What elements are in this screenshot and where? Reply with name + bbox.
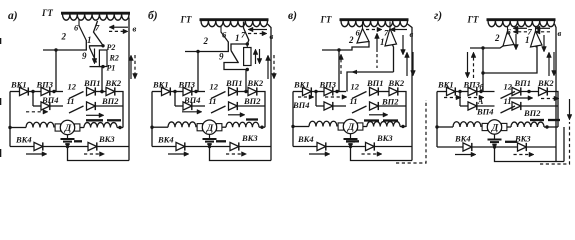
return loop xyxy=(210,147,272,161)
wire and node after ВК1 xyxy=(455,90,468,93)
svg-text:ВП3: ВП3 xyxy=(178,80,196,90)
diode ВК2 xyxy=(105,78,122,96)
bottom bus xyxy=(293,146,317,148)
heavy current mark 1 xyxy=(246,118,258,120)
bottom bus xyxy=(10,146,34,148)
svg-text:ВК3: ВК3 xyxy=(514,134,531,144)
transformer ГТ core xyxy=(487,18,556,21)
series winding right xyxy=(80,123,123,130)
svg-text:ГТ: ГТ xyxy=(41,8,53,18)
svg-text:ВК1: ВК1 xyxy=(10,80,27,90)
motor Д xyxy=(338,119,363,133)
svg-text:ВК4: ВК4 xyxy=(15,135,32,145)
terminal label в xyxy=(410,29,414,39)
label 1 xyxy=(380,37,385,47)
terminal label в xyxy=(558,28,562,38)
series winding right xyxy=(507,122,558,129)
arrow near winding 2 xyxy=(248,31,267,36)
motor Д xyxy=(482,120,507,134)
diode ВП3 xyxy=(178,80,196,96)
transformer ГТ core xyxy=(340,18,409,21)
current arrow under ВК3 xyxy=(84,152,105,157)
wire after ВК3 xyxy=(239,146,271,148)
diode ВП3 xyxy=(463,80,481,96)
wire after ВП1 xyxy=(237,91,248,93)
current arrow down right side dashed xyxy=(272,55,277,79)
bottom bus xyxy=(152,146,176,148)
label 2 xyxy=(61,32,67,42)
diode ВК4 xyxy=(157,135,185,151)
riser to rectifier bus xyxy=(55,50,57,92)
label ГТ xyxy=(41,8,53,18)
tap label 7 xyxy=(384,28,389,38)
contact 9 shunt xyxy=(90,46,104,67)
left vertical wire xyxy=(292,92,294,147)
scan artifact left edge xyxy=(0,38,2,157)
wire to contact 1 riser xyxy=(483,47,537,74)
label 1 xyxy=(235,33,240,43)
diode ВП2 xyxy=(370,97,400,111)
label 1 xyxy=(525,35,530,45)
tap label 6 xyxy=(74,22,79,32)
arrow near winding 4 xyxy=(535,30,550,35)
wire terminal в down right side xyxy=(128,18,130,161)
contact 2 xyxy=(79,20,86,41)
riser to rectifier bus xyxy=(197,52,199,92)
svg-text:ВК4: ВК4 xyxy=(297,134,314,144)
transformer ГТ core xyxy=(200,18,269,21)
transformer ГТ winding xyxy=(201,21,268,27)
svg-text:Р1: Р1 xyxy=(107,64,116,73)
series winding left xyxy=(291,121,337,128)
left bus wire xyxy=(152,91,162,93)
svg-text:11: 11 xyxy=(350,96,358,106)
return loop xyxy=(351,147,413,161)
left vertical wire xyxy=(436,92,438,148)
contact 2 xyxy=(221,26,228,42)
wire terminal в down right side xyxy=(555,24,557,162)
diode ВК1 xyxy=(10,80,28,96)
bus to right corner xyxy=(547,92,558,128)
current arrow up right side xyxy=(547,52,552,76)
wire after ВП3 xyxy=(192,90,205,93)
arrow near winding 2 xyxy=(109,29,128,34)
wire and node after ВК1 xyxy=(311,90,324,93)
svg-text:Д: Д xyxy=(206,124,214,134)
svg-text:ВП1: ВП1 xyxy=(225,78,243,88)
left bus wire xyxy=(293,91,303,93)
panel label в xyxy=(288,10,297,22)
arrow near winding 3 xyxy=(535,26,550,31)
current direction arrow 3 xyxy=(369,113,388,118)
diode ВК4 xyxy=(454,134,472,152)
wire after ВП1 xyxy=(95,90,106,93)
current arrow under ВК4 xyxy=(309,152,330,157)
wire after ВП4 xyxy=(333,105,346,107)
diode ВК4 xyxy=(15,135,43,151)
arrow near winding 2 xyxy=(513,30,527,35)
left bus wire xyxy=(437,91,447,93)
svg-text:ВК3: ВК3 xyxy=(376,133,393,143)
contact 12 xyxy=(501,82,516,99)
svg-text:ВП4: ВП4 xyxy=(183,95,201,105)
tap label 6 xyxy=(507,27,512,37)
svg-text:ВК1: ВК1 xyxy=(437,80,454,90)
diode ВК4 xyxy=(297,134,326,151)
current direction arrow 2 xyxy=(468,95,484,100)
wire ВП2 to right xyxy=(521,105,558,107)
label 9 xyxy=(82,51,87,61)
wire to ВП4 xyxy=(460,105,468,107)
svg-text:9: 9 xyxy=(82,51,87,61)
svg-text:R2: R2 xyxy=(109,54,119,63)
svg-text:ВК3: ВК3 xyxy=(241,133,258,143)
transformer ГТ winding xyxy=(341,21,408,27)
riser to bus xyxy=(481,48,484,92)
svg-text:ВК4: ВК4 xyxy=(157,135,174,145)
contact 11 xyxy=(350,96,367,113)
current arrow under ВК4 xyxy=(455,152,476,157)
current arrow up between contacts xyxy=(375,33,380,68)
heavy mark near ground xyxy=(346,140,359,142)
resistor xyxy=(244,44,251,66)
node below resistor xyxy=(246,68,249,71)
svg-text:1: 1 xyxy=(87,35,92,45)
contact 9 shunting resistor xyxy=(224,44,247,70)
current arrows at resistor xyxy=(253,49,262,64)
current arrow at winding 1 xyxy=(86,113,104,118)
svg-text:Д: Д xyxy=(347,123,355,133)
wire contact 1 down xyxy=(393,45,394,72)
contact 1 xyxy=(244,22,249,45)
diode ВП4 xyxy=(292,100,333,110)
heavy current mark 1 xyxy=(364,119,379,121)
current direction arrow 4 xyxy=(541,96,559,101)
wire after ВК3 xyxy=(97,146,129,148)
wire and node after ВК1 xyxy=(28,90,41,93)
wire after ВП4 xyxy=(477,105,495,107)
diode ВК2 xyxy=(247,78,264,96)
svg-text:ВП3: ВП3 xyxy=(319,80,337,90)
series winding left xyxy=(150,122,196,129)
diode ВК3 xyxy=(88,134,115,151)
svg-text:ВК1: ВК1 xyxy=(293,80,310,90)
heavy mark near ground xyxy=(505,141,517,143)
svg-text:а): а) xyxy=(8,10,18,22)
heavy mark near ground xyxy=(74,140,82,142)
svg-text:в: в xyxy=(133,24,137,34)
diode ВК2 xyxy=(388,78,405,96)
transformer ГТ winding xyxy=(63,14,130,20)
svg-text:Д: Д xyxy=(64,124,72,134)
arrow near winding 1 xyxy=(513,26,527,31)
series winding left xyxy=(8,122,54,129)
diode ВК3 xyxy=(366,133,394,151)
wire ВП2 to right xyxy=(237,105,265,107)
tap label 7 xyxy=(95,22,100,32)
return loop xyxy=(68,147,130,161)
wire after ВП3 xyxy=(50,90,63,93)
terminal label в xyxy=(133,24,137,34)
return loop xyxy=(495,147,565,162)
svg-text:12: 12 xyxy=(68,82,77,92)
dashed return path xyxy=(540,122,570,164)
contact 11 xyxy=(209,96,226,113)
current arrow down through contact 9 xyxy=(92,49,97,65)
svg-text:б): б) xyxy=(148,10,158,22)
svg-text:ВП2: ВП2 xyxy=(523,108,541,118)
diode ВП3 xyxy=(319,80,337,96)
svg-text:12: 12 xyxy=(210,82,219,92)
contact 12 xyxy=(68,82,84,99)
wire after ВП1 xyxy=(378,91,389,93)
wire after ВК4 xyxy=(326,145,366,148)
wire after ВП4 xyxy=(192,105,205,107)
svg-text:ВП2: ВП2 xyxy=(243,96,261,106)
ground at motor xyxy=(203,134,217,144)
svg-text:1: 1 xyxy=(525,35,530,45)
dashed return path xyxy=(396,100,426,163)
contact 1 closed xyxy=(385,22,397,47)
terminal label в xyxy=(270,31,274,41)
wire contact 2 to riser xyxy=(322,42,369,52)
tap label 6 xyxy=(222,30,227,40)
heavy mark near ground xyxy=(216,140,226,142)
current direction arrow 1 xyxy=(26,110,48,115)
label ГТ xyxy=(467,15,479,25)
contact 2 closed xyxy=(503,26,514,46)
current arrow down right side dashed xyxy=(133,55,138,79)
svg-text:ВП4: ВП4 xyxy=(41,95,59,105)
svg-text:ВП1: ВП1 xyxy=(83,78,101,88)
wire to ВП4 xyxy=(316,105,324,107)
panel label а xyxy=(8,10,18,22)
tap label 7 xyxy=(528,27,533,37)
wire contact 2 to bus riser xyxy=(43,40,86,52)
diode ВП4 xyxy=(183,95,201,110)
svg-text:1: 1 xyxy=(235,33,240,43)
wire and node after ВК1 xyxy=(170,90,183,93)
wire after ВП3 xyxy=(333,90,346,93)
wire after ВП1 xyxy=(521,90,539,93)
node above resistor xyxy=(246,42,249,45)
wire terminal в down right side xyxy=(268,24,272,161)
wire Р1 to bus xyxy=(100,67,103,94)
diode ВП3 xyxy=(36,80,54,96)
node label А xyxy=(477,97,484,106)
current arrow up riser dashed xyxy=(339,54,344,74)
wire ВП2 to right xyxy=(378,105,406,107)
contact 12 xyxy=(351,82,367,99)
diode ВП1 xyxy=(512,78,531,96)
heavy current mark 1 xyxy=(530,119,544,121)
diode ВК2 xyxy=(537,78,554,96)
svg-text:ВП1: ВП1 xyxy=(366,78,384,88)
diode ВК1 xyxy=(437,80,455,96)
svg-text:ВП3: ВП3 xyxy=(463,80,481,90)
wire terminal в down right side xyxy=(408,24,413,161)
wire after ВК4 xyxy=(43,145,88,148)
label 2 xyxy=(203,36,209,46)
svg-text:1: 1 xyxy=(380,37,385,47)
diode ВК1 xyxy=(293,80,311,96)
current arrow down right side xyxy=(411,52,416,76)
wire after ВК4 xyxy=(472,145,518,148)
wire contact 2 to riser xyxy=(470,46,503,50)
current direction arrow 2 xyxy=(325,95,347,100)
node Р1 xyxy=(101,64,115,73)
svg-text:Р2: Р2 xyxy=(107,43,116,52)
wire after ВК3 xyxy=(526,146,556,148)
diode ВП2 xyxy=(87,96,120,110)
left vertical wire xyxy=(151,92,153,147)
transformer ГТ winding xyxy=(488,21,555,27)
arrow near winding 1 xyxy=(366,27,382,32)
svg-text:11: 11 xyxy=(209,96,217,106)
wire to ВП4 xyxy=(175,105,183,107)
svg-text:ВК2: ВК2 xyxy=(537,78,554,88)
resistor R2 xyxy=(99,50,107,67)
contact 12 xyxy=(210,82,226,99)
arrow near winding 1 xyxy=(109,25,128,30)
svg-text:ГТ: ГТ xyxy=(180,15,192,25)
svg-text:ВП3: ВП3 xyxy=(36,80,54,90)
diode ВП1 xyxy=(83,78,101,96)
left vertical wire xyxy=(9,92,11,147)
series winding right xyxy=(222,122,265,129)
node Р2 xyxy=(101,43,115,52)
right return wire xyxy=(563,127,565,162)
svg-text:ВП4: ВП4 xyxy=(292,100,310,110)
contact 2 closed xyxy=(357,22,369,44)
svg-text:2: 2 xyxy=(348,35,354,45)
bus to right corner xyxy=(398,92,406,128)
current arrow down at contact 1 xyxy=(401,35,406,55)
bus to right corner xyxy=(115,92,123,128)
label 1 xyxy=(87,35,92,45)
ground at motor xyxy=(61,135,75,144)
left bus wire xyxy=(10,91,20,93)
svg-text:ВП2: ВП2 xyxy=(101,96,119,106)
wire after ВК4 xyxy=(185,145,230,148)
label 2 xyxy=(348,35,354,45)
svg-text:ВК4: ВК4 xyxy=(454,134,471,144)
motor Д xyxy=(55,120,80,134)
svg-text:ВК2: ВК2 xyxy=(105,78,122,88)
current arrow under ВК4 xyxy=(26,152,47,157)
current arrow at winding 1 xyxy=(228,113,245,118)
current arrow down through contact 2 xyxy=(514,34,519,50)
node label б xyxy=(480,83,485,92)
diode ВП4 xyxy=(41,95,59,110)
heavy current mark 2 xyxy=(383,119,398,121)
current arrow down into dashed return xyxy=(567,99,572,120)
svg-text:ВК2: ВК2 xyxy=(247,78,264,88)
series winding right xyxy=(363,122,406,129)
svg-text:ВК2: ВК2 xyxy=(388,78,405,88)
svg-text:в: в xyxy=(558,28,562,38)
wire with left arrow to bus xyxy=(347,72,394,92)
contact 1 xyxy=(94,21,104,46)
wire ВП2 to right xyxy=(95,105,123,107)
label 9 xyxy=(219,52,224,62)
label R2 xyxy=(109,54,119,63)
current arrow down through contact 1 xyxy=(542,35,547,52)
bus to right corner xyxy=(257,92,265,128)
contact 11 xyxy=(67,96,84,113)
diode ВП1 xyxy=(366,78,384,96)
arrow near winding 2 xyxy=(390,27,407,32)
svg-text:12: 12 xyxy=(351,82,360,92)
current arrow up right side xyxy=(405,52,410,76)
svg-text:ГТ: ГТ xyxy=(467,15,479,25)
svg-text:2: 2 xyxy=(203,36,209,46)
arrows left of riser xyxy=(465,52,476,78)
bottom bus xyxy=(437,146,463,148)
svg-text:ВК1: ВК1 xyxy=(152,80,169,90)
branch down to ВП4 row xyxy=(174,92,176,107)
label ГТ xyxy=(180,15,192,25)
tap label 7 xyxy=(241,30,246,40)
svg-text:в): в) xyxy=(288,10,297,22)
current direction arrow 3 xyxy=(509,96,533,101)
current direction arrow 1 xyxy=(182,110,202,115)
current direction arrow 1 xyxy=(444,95,461,100)
diode ВП2 xyxy=(229,96,262,110)
diode ВК3 xyxy=(230,133,258,151)
current arrow up right side xyxy=(129,55,134,79)
wire contact 2 to bus riser xyxy=(185,42,228,54)
current direction arrow 1 xyxy=(298,95,314,100)
motor Д xyxy=(197,120,222,134)
svg-text:ВК3: ВК3 xyxy=(98,134,115,144)
diode ВП4 xyxy=(468,102,494,117)
wire after ВП3 xyxy=(477,90,495,93)
branch down to ВП4 row xyxy=(32,92,34,107)
svg-text:г): г) xyxy=(434,10,442,22)
diode ВК1 xyxy=(152,80,170,96)
panel label б xyxy=(148,10,158,22)
branch down to ВП4 row xyxy=(315,92,317,107)
heavy current mark 1 xyxy=(86,119,103,121)
wire after ВК3 xyxy=(374,146,412,148)
ground at motor xyxy=(488,134,502,144)
svg-text:Д: Д xyxy=(491,124,499,134)
svg-text:ГТ: ГТ xyxy=(320,15,332,25)
svg-text:12: 12 xyxy=(504,82,513,92)
heavy current mark 2 xyxy=(107,119,121,121)
current arrow up right side xyxy=(266,55,271,79)
current arrow under ВК3 xyxy=(226,152,247,157)
riser to bus xyxy=(338,50,340,92)
panel label г xyxy=(434,10,442,22)
heavy current mark 2 xyxy=(548,119,560,121)
series winding left xyxy=(435,122,481,129)
svg-text:2: 2 xyxy=(61,32,67,42)
svg-text:11: 11 xyxy=(67,96,75,106)
left arrowhead on wire xyxy=(351,70,357,75)
transformer ГТ core xyxy=(61,12,130,15)
svg-text:9: 9 xyxy=(219,52,224,62)
svg-text:ВП4: ВП4 xyxy=(476,107,494,117)
svg-text:ВП2: ВП2 xyxy=(381,97,399,107)
svg-text:ВП1: ВП1 xyxy=(514,78,532,88)
svg-text:2: 2 xyxy=(494,33,500,43)
branch down to ВП4 row xyxy=(459,92,461,107)
diode ВК3 xyxy=(514,134,531,152)
diode ВП2 xyxy=(512,102,541,118)
contact 1 closed xyxy=(531,26,543,47)
